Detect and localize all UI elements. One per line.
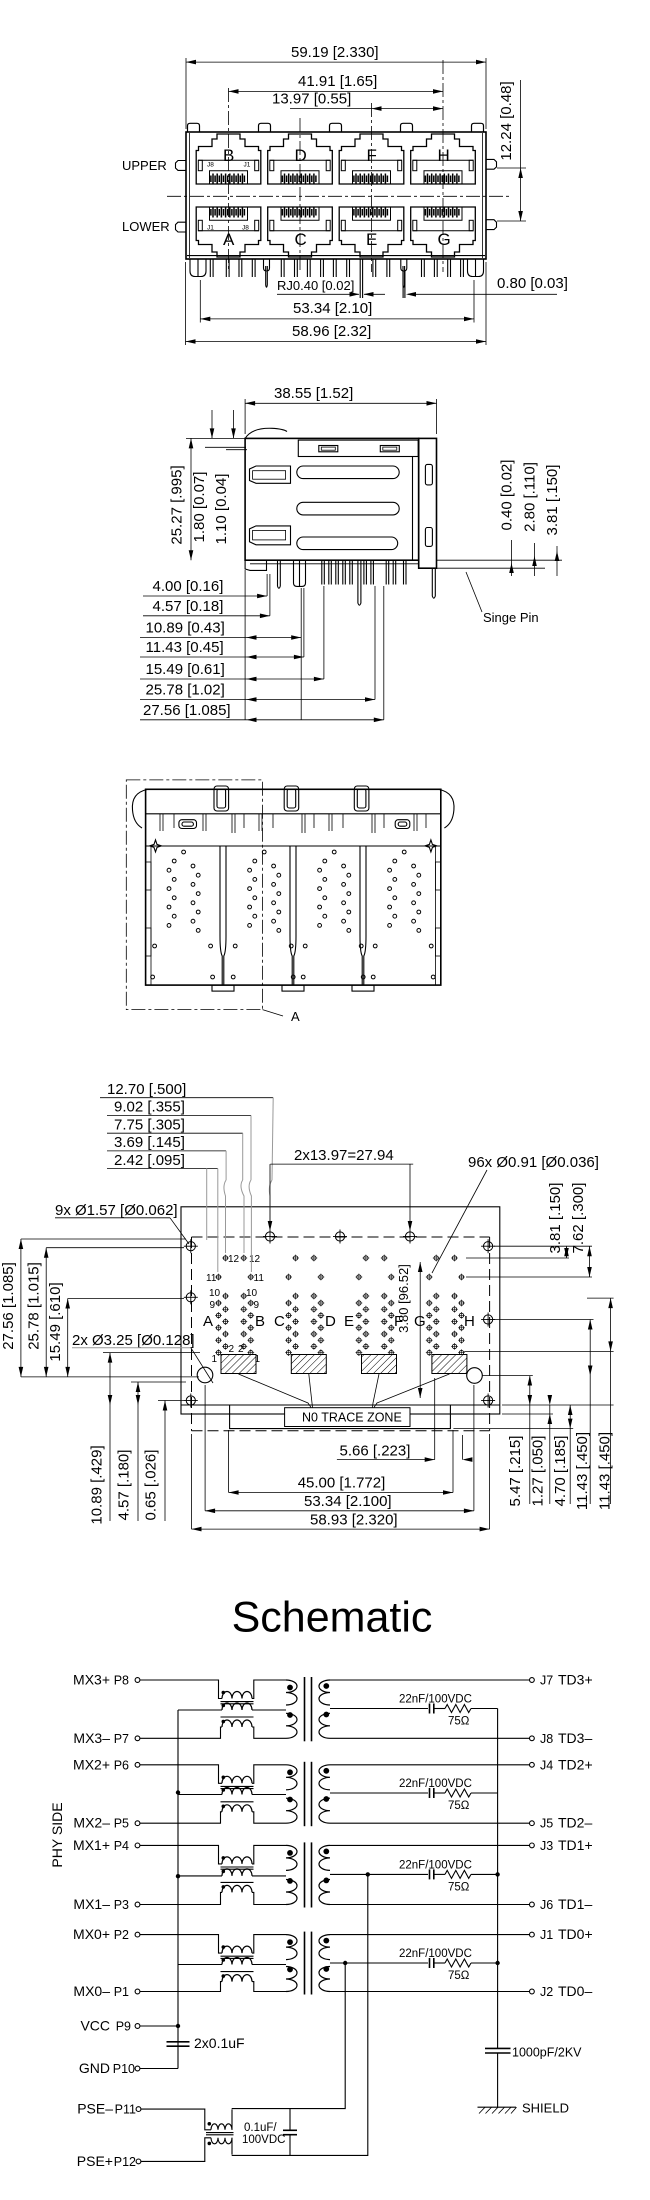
svg-text:100VDC: 100VDC [242,2134,285,2146]
svg-text:41.91 [1.65]: 41.91 [1.65] [298,73,377,90]
svg-text:MX2+: MX2+ [73,1756,110,1772]
svg-text:N0 TRACE ZONE: N0 TRACE ZONE [302,1411,402,1425]
svg-text:10: 10 [246,1288,258,1299]
svg-text:J6: J6 [540,1898,553,1912]
svg-text:27.56 [1.085]: 27.56 [1.085] [143,702,231,719]
svg-text:1000pF/2KV: 1000pF/2KV [512,2046,582,2060]
svg-text:22nF/100VDC: 22nF/100VDC [399,1694,472,1706]
svg-text:J8: J8 [207,162,214,169]
svg-text:J7: J7 [540,1674,553,1688]
svg-text:13.97 [0.55]: 13.97 [0.55] [272,91,351,108]
svg-text:PHY SIDE: PHY SIDE [49,1802,65,1867]
svg-text:15.49 [0.61]: 15.49 [0.61] [146,661,225,678]
svg-text:B: B [255,1313,265,1330]
svg-text:J1: J1 [207,225,214,232]
svg-text:11.43 [.450]: 11.43 [.450] [574,1432,591,1510]
svg-text:E: E [344,1313,354,1330]
svg-text:J1: J1 [540,1928,553,1942]
svg-text:22nF/100VDC: 22nF/100VDC [399,1859,472,1871]
svg-text:P5: P5 [114,1817,129,1831]
svg-text:2x0.1uF: 2x0.1uF [194,2035,245,2051]
svg-text:D: D [325,1313,336,1330]
svg-text:UPPER: UPPER [122,158,167,173]
svg-text:1.27 [.050]: 1.27 [.050] [530,1436,547,1507]
svg-text:9.02 [.355]: 9.02 [.355] [114,1099,185,1116]
svg-text:53.34 [2.100]: 53.34 [2.100] [304,1493,392,1510]
svg-text:TD2+: TD2+ [558,1756,593,1772]
svg-text:10: 10 [209,1288,221,1299]
svg-text:27.56 [1.085]: 27.56 [1.085] [0,1262,17,1350]
svg-text:TD0–: TD0– [558,1983,592,1999]
svg-text:TD2–: TD2– [558,1815,592,1831]
svg-text:J8: J8 [242,225,249,232]
svg-text:P1: P1 [114,1985,129,1999]
svg-text:58.96 [2.32]: 58.96 [2.32] [292,323,371,340]
svg-text:MX2–: MX2– [73,1815,110,1831]
svg-text:53.34 [2.10]: 53.34 [2.10] [293,300,372,317]
svg-text:2x Ø3.25 [Ø0.128]: 2x Ø3.25 [Ø0.128] [72,1332,195,1349]
svg-text:58.93 [2.320]: 58.93 [2.320] [310,1512,398,1529]
svg-text:H: H [464,1313,475,1330]
svg-text:A: A [223,230,235,249]
svg-text:TD1–: TD1– [558,1896,592,1912]
svg-text:9x Ø1.57 [Ø0.062]: 9x Ø1.57 [Ø0.062] [55,1202,178,1219]
svg-text:MX0–: MX0– [73,1983,110,1999]
svg-text:3.80 [96.52]: 3.80 [96.52] [396,1264,411,1333]
svg-text:LOWER: LOWER [122,219,170,234]
svg-text:SHIELD: SHIELD [522,2101,569,2116]
svg-text:4.70 [.185]: 4.70 [.185] [552,1436,569,1507]
svg-text:MX3–: MX3– [73,1730,110,1746]
svg-text:1.10 [0.04]: 1.10 [0.04] [213,474,230,545]
svg-text:12.24 [0.48]: 12.24 [0.48] [498,81,515,160]
svg-text:C: C [295,230,307,249]
svg-text:TD1+: TD1+ [558,1837,593,1853]
svg-text:22nF/100VDC: 22nF/100VDC [399,1948,472,1960]
svg-text:75Ω: 75Ω [448,1800,470,1812]
svg-text:3.69 [.145]: 3.69 [.145] [114,1134,185,1151]
svg-text:RJ0.40 [0.02]: RJ0.40 [0.02] [277,278,354,293]
svg-text:25.78 [1.015]: 25.78 [1.015] [26,1262,43,1350]
svg-text:12.70 [.500]: 12.70 [.500] [107,1081,186,1098]
svg-text:75Ω: 75Ω [448,1970,470,1982]
svg-text:P4: P4 [114,1839,129,1853]
svg-text:25.78 [1.02]: 25.78 [1.02] [146,682,225,699]
svg-text:7.62 [.300]: 7.62 [.300] [570,1183,587,1254]
svg-text:75Ω: 75Ω [448,1881,470,1893]
svg-text:0.1uF/: 0.1uF/ [244,2122,277,2134]
svg-text:2.42 [.095]: 2.42 [.095] [114,1152,185,1169]
svg-text:0.65 [.026]: 0.65 [.026] [143,1450,160,1521]
svg-text:P6: P6 [114,1758,129,1772]
svg-text:10.89 [.429]: 10.89 [.429] [89,1445,106,1524]
svg-text:11: 11 [254,1273,265,1284]
svg-text:0.40 [0.02]: 0.40 [0.02] [499,460,516,531]
svg-text:9: 9 [254,1300,260,1311]
svg-text:VCC: VCC [80,2018,110,2034]
svg-text:2.80 [.110]: 2.80 [.110] [522,462,539,532]
svg-text:11.43 [0.45]: 11.43 [0.45] [146,639,224,656]
svg-text:MX1+: MX1+ [73,1837,110,1853]
svg-text:22nF/100VDC: 22nF/100VDC [399,1778,472,1790]
svg-text:Singe Pin: Singe Pin [483,610,539,625]
svg-text:P2: P2 [114,1928,129,1942]
svg-text:PSE+: PSE+ [77,2153,113,2169]
svg-text:H: H [438,146,450,165]
svg-text:P10: P10 [113,2062,135,2076]
svg-text:GND: GND [79,2060,110,2076]
svg-text:P11: P11 [115,2103,136,2117]
svg-text:11: 11 [206,1273,217,1284]
svg-text:4.57 [0.18]: 4.57 [0.18] [153,598,224,615]
svg-text:75Ω: 75Ω [448,1716,470,1728]
svg-text:59.19 [2.330]: 59.19 [2.330] [291,44,379,61]
svg-text:A: A [203,1313,213,1330]
svg-text:9: 9 [210,1300,216,1311]
svg-text:2: 2 [229,1344,235,1355]
svg-text:MX0+: MX0+ [73,1926,110,1942]
svg-text:P7: P7 [114,1732,129,1746]
svg-text:0.80 [0.03]: 0.80 [0.03] [497,275,568,292]
svg-text:10.89 [0.43]: 10.89 [0.43] [146,620,225,637]
svg-text:J3: J3 [540,1839,553,1853]
svg-text:P9: P9 [116,2020,131,2034]
svg-text:TD3–: TD3– [558,1730,592,1746]
svg-text:TD0+: TD0+ [558,1926,593,1942]
svg-text:J1: J1 [244,162,251,169]
svg-text:Schematic: Schematic [232,1594,433,1642]
svg-text:12: 12 [228,1254,240,1265]
svg-text:25.27 [.995]: 25.27 [.995] [169,465,186,544]
svg-text:3.81 [.150]: 3.81 [.150] [544,465,561,536]
svg-text:5.47 [.215]: 5.47 [.215] [507,1436,524,1507]
svg-text:96x Ø0.91 [Ø0.036]: 96x Ø0.91 [Ø0.036] [468,1154,599,1171]
svg-text:J5: J5 [540,1817,553,1831]
svg-text:P12: P12 [114,2155,136,2169]
svg-text:3.81 [.150]: 3.81 [.150] [547,1183,564,1254]
svg-text:2: 2 [238,1344,244,1355]
svg-text:D: D [295,146,307,165]
svg-text:5.66 [.223]: 5.66 [.223] [340,1443,411,1460]
svg-text:15.49 [.610]: 15.49 [.610] [47,1282,64,1361]
svg-text:P3: P3 [114,1898,129,1912]
svg-text:PSE–: PSE– [77,2101,113,2117]
svg-text:45.00 [1.772]: 45.00 [1.772] [298,1475,386,1492]
svg-text:J4: J4 [540,1758,553,1772]
svg-text:MX1–: MX1– [73,1896,110,1912]
svg-text:7.75 [.305]: 7.75 [.305] [114,1117,185,1134]
svg-text:C: C [274,1313,285,1330]
svg-text:TD3+: TD3+ [558,1672,593,1688]
svg-text:A: A [291,1009,300,1024]
svg-text:4.00 [0.16]: 4.00 [0.16] [153,578,224,595]
svg-text:4.57 [.180]: 4.57 [.180] [116,1450,133,1521]
svg-text:P8: P8 [114,1674,129,1688]
svg-text:2x13.97=27.94: 2x13.97=27.94 [294,1147,394,1164]
svg-text:12: 12 [249,1254,261,1265]
svg-text:J2: J2 [540,1985,553,1999]
svg-text:1.80 [0.07]: 1.80 [0.07] [191,472,208,543]
svg-text:MX3+: MX3+ [73,1672,110,1688]
svg-text:J8: J8 [540,1732,553,1746]
svg-text:G: G [438,230,451,249]
svg-text:38.55 [1.52]: 38.55 [1.52] [274,385,353,402]
svg-text:1: 1 [212,1354,218,1365]
